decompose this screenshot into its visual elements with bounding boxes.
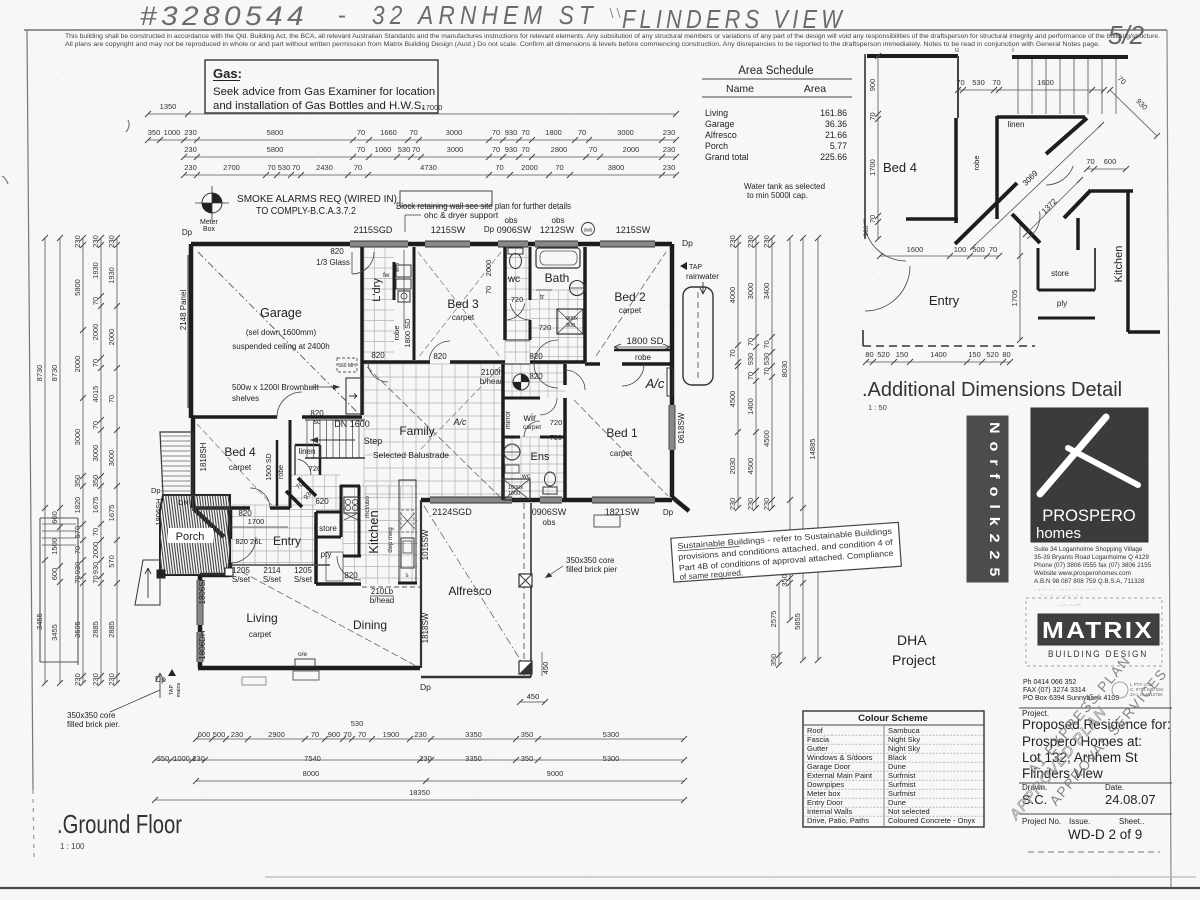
svg-text:820 26L: 820 26L: [235, 537, 262, 546]
matrix building design logo: [1026, 598, 1162, 666]
svg-text:and installation of Gas Bottle: and installation of Gas Bottles and H.W.…: [213, 100, 424, 112]
svg-text:Gas:: Gas:: [213, 66, 242, 81]
svg-text:720: 720: [309, 464, 322, 473]
detail kitchen wall: [1126, 191, 1130, 332]
svg-text:820: 820: [310, 409, 324, 418]
svg-text:3800: 3800: [608, 163, 625, 172]
svg-text:1800 SD: 1800 SD: [403, 318, 412, 348]
svg-text:obs: obs: [543, 518, 556, 527]
oe vent living south: [295, 659, 315, 667]
svg-text:Website www.prosperohomes.c: Website www.prosperohomes.com: [1034, 570, 1131, 577]
wet area south wall bed3: [362, 360, 430, 364]
svg-text:sws: sws: [584, 228, 593, 234]
svg-text:1820: 1820: [73, 497, 82, 514]
detail dim 1600 100 500 70: [880, 255, 999, 257]
garage 560 MH dashed box: [337, 358, 357, 372]
svg-text:dwp mwg: dwp mwg: [388, 527, 394, 552]
svg-text:820: 820: [371, 351, 385, 360]
svg-text:900x: 900x: [566, 316, 578, 322]
kitchen pantry walls: [314, 512, 318, 584]
svg-text:570: 570: [107, 555, 116, 568]
svg-text:720: 720: [539, 323, 552, 332]
svg-text:1205: 1205: [294, 566, 312, 575]
svg-text:#3280544: #3280544: [140, 1, 308, 31]
svg-text:Garage: Garage: [260, 306, 302, 320]
north wall window markings: [350, 242, 408, 247]
alfresco pier top: [519, 574, 532, 587]
svg-text:PROSPERO: PROSPERO: [1042, 507, 1136, 525]
svg-text:Alfresco: Alfresco: [705, 130, 737, 140]
svg-text:2000: 2000: [521, 163, 538, 172]
svg-text:Sambuca: Sambuca: [888, 726, 921, 735]
detail west wall: [864, 54, 866, 239]
svg-text:ohc & dryer support: ohc & dryer support: [424, 210, 499, 220]
svg-text:3350: 3350: [465, 754, 482, 763]
svg-text:70: 70: [492, 145, 500, 154]
detail dim 70 600: [1087, 168, 1126, 170]
garage east wall: [360, 247, 364, 415]
svg-text:1212SW: 1212SW: [540, 225, 575, 235]
garage diagonal line: [198, 252, 358, 413]
svg-text:21.66: 21.66: [825, 130, 847, 140]
svg-text:2000: 2000: [73, 356, 82, 373]
bath shower 900x900: [557, 309, 583, 334]
svg-text:3455: 3455: [50, 624, 59, 641]
north exterior wall: [191, 242, 672, 247]
svg-text:Name: Name: [726, 83, 754, 95]
svg-text:sc: sc: [314, 419, 322, 426]
tile grid bath: [530, 290, 585, 362]
svg-text:230: 230: [107, 235, 116, 248]
svg-text:4730: 4730: [420, 163, 437, 172]
svg-text:230: 230: [91, 673, 100, 686]
svg-text:900: 900: [328, 730, 341, 739]
svg-text:930: 930: [505, 128, 518, 137]
svg-text:1806SH: 1806SH: [198, 575, 207, 604]
svg-text:A.B.N 98 087 808 759 Q.B.S: A.B.N 98 087 808 759 Q.B.S.A, 711328: [1034, 578, 1145, 585]
svg-text:230: 230: [184, 128, 197, 137]
svg-text:Gutter: Gutter: [807, 744, 828, 753]
bed4 south wall with door gap: [193, 506, 250, 510]
svg-text:70: 70: [484, 286, 493, 294]
prospero homes logo: [1031, 408, 1148, 542]
west wall window markings living: [198, 580, 203, 625]
approval stamp diagonal text: [1007, 652, 1171, 824]
svg-text:2000: 2000: [623, 145, 640, 154]
family diagonal: [367, 367, 500, 497]
svg-text:2900: 2900: [268, 730, 285, 739]
svg-text:S/set: S/set: [263, 575, 282, 584]
svg-text:8030: 8030: [780, 361, 789, 378]
top dimension chain second row: [184, 156, 676, 158]
svg-text:70: 70: [91, 528, 100, 536]
svg-text:Step: Step: [364, 436, 383, 446]
svg-text:carpet: carpet: [249, 630, 272, 639]
svg-text:530: 530: [972, 78, 985, 87]
svg-text:70: 70: [492, 128, 500, 137]
svg-text:A/c: A/c: [452, 417, 467, 427]
svg-text:Porch: Porch: [705, 141, 728, 151]
laundry tub and washing machine: [396, 265, 411, 277]
svg-text:230: 230: [73, 673, 82, 686]
wet wall corridor south y364: [505, 363, 530, 365]
bed4 door arc: [250, 488, 270, 508]
svg-text:2575: 2575: [769, 611, 778, 628]
svg-text:2124SGD: 2124SGD: [432, 507, 472, 517]
svg-text:DHA: DHA: [897, 632, 927, 648]
svg-text:1800 SD: 1800 SD: [627, 336, 664, 347]
svg-text:2148 Panel: 2148 Panel: [179, 290, 188, 331]
left vertical dimension chains: [44, 238, 46, 683]
svg-text:1818SW: 1818SW: [421, 612, 430, 643]
detail north wall segment 1: [867, 54, 958, 58]
svg-text:All plans are copyright and ma: All plans are copyright and may not be r…: [65, 41, 1100, 48]
svg-text:Dp: Dp: [682, 238, 693, 248]
svg-text:36.36: 36.36: [825, 119, 847, 129]
svg-text:S/set: S/set: [294, 575, 313, 584]
tile grid wc corridor: [505, 247, 530, 362]
svg-text:210Lb: 210Lb: [371, 587, 394, 596]
bottom dimension chain row 3 8000 9000: [196, 780, 684, 782]
bed4 porch angled corner wall: [193, 508, 224, 537]
svg-text:carpet: carpet: [452, 313, 475, 322]
top dimension chain third row: [184, 174, 676, 176]
svg-text:filled brick pier.: filled brick pier.: [67, 720, 120, 729]
svg-text:4015: 4015: [91, 386, 100, 403]
svg-text:1 : 100: 1 : 100: [60, 842, 85, 851]
svg-text:b/head: b/head: [370, 596, 394, 605]
svg-text:230: 230: [184, 163, 197, 172]
svg-text:wm: wm: [395, 263, 401, 273]
laundry family door arc: [368, 362, 388, 382]
handwritten job title #3280544 - 32 ARNHEM ST FLINDERS VIEW: [140, 0, 846, 34]
bed2 robe dim 1800 SD: [614, 346, 670, 348]
svg-text:350x350 core: 350x350 core: [566, 556, 615, 565]
svg-text:1700: 1700: [248, 517, 265, 526]
laundry robe wall: [393, 262, 396, 300]
svg-text:80: 80: [1002, 350, 1010, 359]
sustainable buildings note box rotated: [671, 522, 902, 582]
svg-text:Meter box: Meter box: [807, 789, 841, 798]
svg-text:Colour Scheme: Colour Scheme: [858, 713, 928, 724]
svg-text:2700: 2700: [223, 163, 240, 172]
svg-text:520: 520: [877, 350, 890, 359]
detail diagonal hall wall lower: [1064, 190, 1091, 218]
svg-text:N o r f o l k 2 2 5: N o r f o l k 2 2 5: [987, 422, 1003, 578]
svg-text:3000: 3000: [91, 445, 100, 462]
svg-text:S/set: S/set: [232, 575, 251, 584]
tile grid entry: [232, 505, 316, 565]
svg-text:720: 720: [550, 435, 562, 442]
svg-text:Dune: Dune: [888, 798, 906, 807]
svg-text:1/3 Glass: 1/3 Glass: [316, 258, 350, 267]
svg-text:1215SW: 1215SW: [431, 225, 466, 235]
svg-text:wir: wir: [523, 413, 537, 424]
svg-text:robe: robe: [635, 353, 652, 362]
svg-text:80: 80: [865, 350, 873, 359]
south exterior wall living dining: [198, 666, 420, 671]
bath door arc: [510, 304, 530, 321]
garage shelves: [346, 378, 361, 414]
alfresco pier bottom corner: [519, 661, 532, 674]
svg-text:carpet: carpet: [523, 424, 541, 431]
svg-text:100: 100: [954, 245, 967, 254]
hall wall x503: [501, 364, 505, 500]
svg-text:70: 70: [354, 163, 362, 172]
porch pier squares: [157, 570, 165, 578]
svg-text:(sel down 1600mm): (sel down 1600mm): [246, 328, 317, 337]
svg-text:70: 70: [412, 145, 420, 154]
svg-text:Dp: Dp: [151, 486, 161, 495]
alfresco outline: [421, 676, 531, 678]
svg-text:Dune: Dune: [888, 762, 906, 771]
svg-text:230: 230: [663, 163, 676, 172]
svg-text:820: 820: [330, 247, 344, 256]
detail interior wall vertical x958: [957, 56, 959, 118]
detail interior wall horizontal y219: [906, 217, 958, 221]
porch label: [168, 528, 213, 543]
svg-text:DN 1600: DN 1600: [334, 419, 370, 429]
detail diagonal dim 1372: [1026, 180, 1080, 234]
svg-text:900: 900: [868, 79, 877, 92]
svg-text:18350: 18350: [409, 788, 430, 797]
stray pen marks: [126, 120, 129, 132]
svg-text:2030: 2030: [728, 458, 737, 475]
svg-text:70: 70: [589, 145, 597, 154]
svg-text:930: 930: [91, 562, 100, 575]
west wall bed4: [191, 418, 196, 508]
svg-text:4500: 4500: [762, 430, 771, 447]
svg-text:Phone (07) 3806 0555 fax (07): Phone (07) 3806 0555 fax (07) 3806 2155: [1034, 562, 1152, 569]
svg-text:600: 600: [50, 568, 59, 581]
svg-text:robe: robe: [278, 465, 285, 479]
svg-text:BUILDING DESIGN: BUILDING DESIGN: [1048, 649, 1148, 660]
kitchen dining bulkhead dashed: [362, 586, 421, 588]
svg-text:Dp: Dp: [663, 508, 674, 517]
svg-text:Internal Walls: Internal Walls: [807, 807, 852, 816]
svg-text:720: 720: [550, 418, 563, 427]
kitchen cooktop: [344, 497, 359, 513]
bed3 diagonals: [418, 252, 501, 358]
bed3 east wall wc: [503, 247, 507, 340]
detail south dashed wall: [863, 345, 1035, 347]
svg-text:820: 820: [433, 352, 447, 361]
detail bed4 door arc: [864, 219, 906, 261]
svg-text:7540: 7540: [304, 754, 321, 763]
svg-text:500w x 1200l Brownbuilt: 500w x 1200l Brownbuilt: [232, 383, 319, 392]
svg-text:230: 230: [762, 498, 771, 511]
svg-text:450: 450: [527, 692, 540, 701]
svg-text:5.77: 5.77: [830, 141, 847, 151]
svg-text:L'dry: L'dry: [371, 278, 383, 302]
svg-text:2100h: 2100h: [481, 368, 503, 377]
svg-text:External Main Paint: External Main Paint: [807, 771, 873, 780]
svg-text:WD-D 2 of 9: WD-D 2 of 9: [1068, 827, 1142, 842]
svg-text:1500 SD: 1500 SD: [266, 453, 273, 480]
svg-text:230: 230: [414, 730, 427, 739]
wir door arc: [540, 398, 557, 415]
dining east window wall: [420, 500, 422, 668]
svg-text:3000: 3000: [746, 283, 755, 300]
svg-text:rainwater: rainwater: [686, 272, 719, 281]
wir ens wall: [503, 436, 520, 439]
bath wc south wall: [505, 339, 530, 341]
svg-text:Night Sky: Night Sky: [888, 735, 920, 744]
svg-text:Bath: Bath: [545, 271, 570, 285]
svg-text:930: 930: [1134, 97, 1149, 112]
svg-text:350: 350: [148, 128, 161, 137]
bed3 door arc: [429, 341, 450, 362]
svg-text:Water tank as selected: Water tank as selected: [744, 182, 825, 191]
svg-text:Dining: Dining: [353, 618, 387, 632]
svg-text:70: 70: [992, 78, 1000, 87]
svg-text:Issue.: Issue.: [1069, 817, 1090, 826]
svg-text:14885: 14885: [808, 439, 817, 460]
svg-text:5800: 5800: [267, 128, 284, 137]
svg-text:Sheet..: Sheet..: [1119, 817, 1144, 826]
tap rainwater labels: [680, 262, 687, 270]
svg-text:Surfmist: Surfmist: [888, 789, 916, 798]
svg-text:820: 820: [529, 372, 543, 381]
svg-text:1372: 1372: [1040, 196, 1059, 215]
bed2 robe wall: [614, 349, 672, 352]
svg-text:230: 230: [728, 235, 737, 248]
svg-text:ply: ply: [1057, 299, 1067, 308]
detail wall to store: [1076, 218, 1080, 250]
ac unit on east wall: [667, 368, 673, 396]
svg-text:720: 720: [511, 295, 524, 304]
bed2 south wall with door gap: [585, 362, 600, 366]
svg-text:carpet: carpet: [610, 449, 633, 458]
stair treads: [307, 420, 359, 458]
svg-text:1400: 1400: [746, 398, 755, 415]
svg-text:Bed 2: Bed 2: [614, 290, 646, 304]
bottom dimension chain row 1: [196, 738, 684, 740]
alfresco diagonal: [424, 506, 528, 672]
svg-text:u: u: [955, 47, 959, 54]
svg-text:TAP: TAP: [169, 685, 175, 696]
svg-text:70: 70: [1116, 74, 1128, 86]
svg-text:161.86: 161.86: [820, 108, 847, 118]
top dimension chain 1350 / 17000: [148, 113, 676, 115]
svg-text:FLINDERS VIEW: FLINDERS VIEW: [622, 4, 846, 34]
svg-text:Living: Living: [246, 611, 277, 625]
svg-text:1000: 1000: [164, 128, 181, 137]
svg-text:500: 500: [972, 245, 985, 254]
svg-text:Fascia: Fascia: [807, 735, 830, 744]
bed4 diagonal: [197, 424, 272, 505]
tile grid wir hall: [503, 364, 565, 398]
side deck steps: [160, 432, 193, 495]
title block rules: [1019, 707, 1172, 709]
svg-text:Selected Balustrade: Selected Balustrade: [373, 450, 449, 460]
svg-text:1 : 50: 1 : 50: [868, 403, 887, 412]
svg-text:A/c: A/c: [645, 376, 665, 391]
svg-text:150: 150: [896, 350, 909, 359]
svg-text:70: 70: [267, 163, 275, 172]
svg-text:350: 350: [157, 754, 170, 763]
svg-text:1930: 1930: [107, 267, 116, 284]
svg-text:70: 70: [311, 730, 319, 739]
svg-text:Downpipes: Downpipes: [807, 780, 844, 789]
svg-text:3400: 3400: [762, 283, 771, 300]
bottom dimension chain row 2: [155, 759, 684, 761]
svg-text:Grand total: Grand total: [705, 152, 749, 162]
svg-text:1800: 1800: [545, 128, 562, 137]
svg-text:70: 70: [521, 145, 529, 154]
svg-text:mains: mains: [176, 682, 182, 697]
svg-text:Living: Living: [705, 108, 728, 118]
svg-text:DN: DN: [178, 498, 189, 507]
wir north wall: [503, 397, 540, 400]
svg-text:.Ground Floor: .Ground Floor: [57, 809, 182, 839]
svg-text:4500: 4500: [746, 458, 755, 475]
svg-text:TAP: TAP: [689, 264, 702, 271]
svg-text:Area: Area: [804, 83, 826, 95]
svg-text:1675: 1675: [91, 497, 100, 514]
garage panel door line: [187, 255, 189, 408]
wc toilet: [508, 248, 523, 254]
tile grid hall and kitchen: [343, 486, 418, 584]
svg-text:to min 5000l cap.: to min 5000l cap.: [747, 191, 808, 200]
detail linen vertical lines: [1018, 59, 1116, 114]
svg-text:70: 70: [495, 163, 503, 172]
top dimension chain row of part dims: [148, 139, 676, 141]
svg-text:0906SW: 0906SW: [497, 225, 532, 235]
chamfer corner bed1 southeast: [672, 497, 689, 511]
svg-text:Alfresco: Alfresco: [448, 584, 492, 598]
bed3 robe shelf lines: [403, 250, 405, 330]
svg-text:35-39 Bryants Road Loganholme: 35-39 Bryants Road Loganholme Q 4129: [1034, 554, 1149, 561]
svg-text:robe: robe: [972, 155, 981, 170]
garage rear door arc: [277, 392, 302, 417]
svg-text:3000: 3000: [617, 128, 634, 137]
svg-text:1215SW: 1215SW: [616, 225, 651, 235]
svg-text:FAX (07) 3274 3314: FAX (07) 3274 3314: [1023, 687, 1086, 694]
svg-text:230: 230: [91, 235, 100, 248]
ens vanity: [504, 444, 520, 460]
svg-text:Seek advice from Gas Examiner: Seek advice from Gas Examiner for locati…: [213, 86, 435, 98]
area schedule table: [702, 65, 852, 162]
svg-text:Kitchen: Kitchen: [1113, 246, 1125, 283]
svg-text:Box: Box: [203, 226, 216, 233]
svg-text:1350: 1350: [160, 102, 177, 111]
svg-text:Drive, Patio, Paths: Drive, Patio, Paths: [807, 816, 869, 825]
svg-text:. ..-.. .- ,.--.: . ..-.. .- ,.--.: [1058, 602, 1081, 608]
svg-text:1700: 1700: [868, 159, 877, 176]
detail hall door arc upper: [1046, 166, 1073, 185]
detail dim 900 vertical: [877, 56, 879, 239]
stair arrow: [310, 439, 355, 441]
svg-text:70: 70: [762, 340, 771, 348]
robe bed3 wall: [413, 247, 416, 360]
svg-text:Bed 4: Bed 4: [883, 160, 917, 175]
svg-text:500: 500: [213, 730, 226, 739]
svg-text:230: 230: [107, 673, 116, 686]
svg-text:suspended ceiling at 2400h: suspended ceiling at 2400h: [232, 342, 329, 351]
svg-text:530: 530: [278, 163, 291, 172]
svg-text:robe: robe: [392, 325, 401, 340]
svg-text:Bed 3: Bed 3: [447, 297, 479, 311]
svg-text:9000: 9000: [547, 769, 564, 778]
svg-text:Roof: Roof: [807, 726, 824, 735]
svg-text:8730: 8730: [50, 365, 59, 382]
svg-text:Porch: Porch: [176, 531, 205, 543]
linen closet walls: [295, 444, 320, 447]
porch hatched floor: [150, 495, 243, 575]
svg-text:o/e: o/e: [298, 651, 307, 658]
living diagonal: [242, 572, 418, 667]
